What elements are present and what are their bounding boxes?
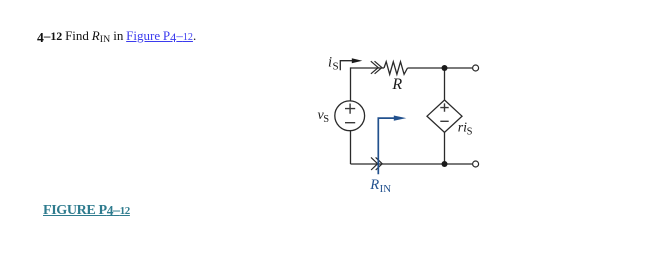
voltage source plus sign xyxy=(345,104,355,114)
svg-text:R: R xyxy=(369,177,379,193)
dependent source U1 diamond xyxy=(427,100,462,132)
voltage source VS circle xyxy=(335,101,365,131)
svg-text:R: R xyxy=(391,76,402,93)
wire: bottom wire xyxy=(351,163,473,165)
dependent source plus sign xyxy=(440,103,448,111)
figure caption link xyxy=(43,203,130,217)
wire: top wire right segment xyxy=(408,67,473,69)
label iS xyxy=(328,55,339,73)
svg-text:S: S xyxy=(323,114,329,125)
resistor R xyxy=(384,62,408,75)
wire: top wire left segment xyxy=(351,67,385,69)
voltage source minus sign xyxy=(345,122,355,124)
wire: right vertical upper xyxy=(444,68,446,100)
wire: left vertical upper xyxy=(350,67,352,101)
svg-text:S: S xyxy=(333,60,339,72)
label R xyxy=(391,76,402,93)
svg-text:S: S xyxy=(467,127,473,138)
RIN looking-in arrow (blue) xyxy=(378,116,406,175)
dependent source minus sign xyxy=(440,120,448,122)
label vS xyxy=(318,108,330,125)
svg-text:IN: IN xyxy=(380,183,392,195)
port chevron marks (top) xyxy=(371,61,382,74)
terminal (open circle, bottom right) xyxy=(473,161,479,167)
problem statement text xyxy=(37,29,196,43)
current iS direction arrow xyxy=(340,58,362,70)
terminal (open circle, top right) xyxy=(473,65,479,71)
wire: right vertical lower xyxy=(444,132,446,164)
label RIN (blue) xyxy=(369,177,391,195)
label riS xyxy=(458,121,473,138)
wire: left vertical lower xyxy=(350,131,352,164)
port chevron marks (bottom) xyxy=(371,157,382,170)
svg-text:i: i xyxy=(328,55,332,71)
node A junction dot (top) xyxy=(442,65,448,71)
node B junction dot (bottom) xyxy=(442,161,448,167)
